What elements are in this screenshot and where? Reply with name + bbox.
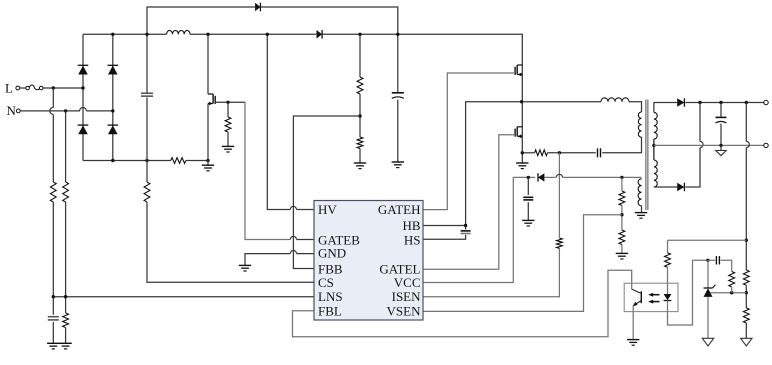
svg-text:HS: HS — [404, 232, 421, 247]
svg-text:FBL: FBL — [318, 304, 342, 319]
svg-text:HV: HV — [318, 202, 337, 217]
svg-text:N: N — [7, 103, 17, 118]
svg-text:GND: GND — [318, 245, 346, 260]
svg-text:L: L — [5, 81, 13, 96]
svg-text:ISEN: ISEN — [392, 289, 422, 304]
svg-text:VSEN: VSEN — [387, 304, 422, 319]
svg-text:VCC: VCC — [394, 275, 421, 290]
svg-text:GATEH: GATEH — [378, 202, 421, 217]
svg-text:LNS: LNS — [318, 289, 343, 304]
svg-text:HB: HB — [402, 218, 420, 233]
svg-text:CS: CS — [318, 275, 334, 290]
